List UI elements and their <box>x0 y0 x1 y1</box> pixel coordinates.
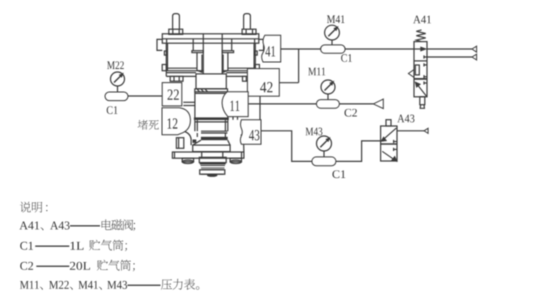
reservoir C1a <box>105 92 128 101</box>
A41 tick3 <box>424 76 427 78</box>
wall notch L <box>164 51 167 55</box>
wall notch R <box>254 51 257 55</box>
reservoir C1c <box>312 157 336 166</box>
legend line4 <box>20 262 33 270</box>
label C1c <box>332 170 345 178</box>
top plate <box>162 34 258 43</box>
central column <box>202 34 204 74</box>
stud right <box>244 14 251 30</box>
ring lines <box>201 130 227 132</box>
port box 12 <box>162 108 190 135</box>
stack dark cap <box>207 174 218 177</box>
seat box <box>193 145 230 152</box>
bottom flange <box>172 152 244 158</box>
wire C2-atm <box>339 103 373 105</box>
A43 tick1 <box>394 141 397 143</box>
port box 41 <box>262 35 281 62</box>
A41 tick1 <box>424 56 427 58</box>
body edge right <box>259 96 261 119</box>
stud left <box>173 14 180 30</box>
legend line2 <box>19 221 39 229</box>
port box 42 <box>247 69 279 97</box>
right web <box>241 135 244 153</box>
gauge M22 <box>111 72 125 86</box>
A41 exhaust tri <box>408 70 414 78</box>
wire C1-A43 <box>336 141 381 162</box>
central box <box>196 74 226 89</box>
num 42 <box>260 82 272 92</box>
A41 diag arrow <box>418 86 426 97</box>
stack2 <box>200 170 225 174</box>
A41 inner rect <box>415 65 419 75</box>
port box 43 <box>240 120 261 145</box>
nut bl <box>182 158 193 162</box>
A41 spring <box>416 30 425 42</box>
label A43 <box>397 115 414 123</box>
plate left tab <box>157 39 162 50</box>
legend line1 <box>20 202 31 213</box>
stack rings <box>201 165 226 167</box>
chamber floor <box>166 70 203 72</box>
label C1a <box>107 106 118 114</box>
wire 43 out <box>261 131 312 162</box>
label M11 <box>308 68 325 76</box>
flange nut left <box>170 76 183 81</box>
nut left <box>169 29 183 34</box>
port box 11 <box>222 92 248 117</box>
wire 41-42 branch <box>298 49 300 83</box>
A41 line2 <box>427 56 472 58</box>
A41 line1 <box>427 48 472 50</box>
legend line3 <box>20 242 33 250</box>
num 22 <box>168 90 179 100</box>
nut right <box>242 29 256 34</box>
port 11 connectors <box>232 117 234 120</box>
A41 flow arrow <box>414 48 423 50</box>
column brackets <box>197 53 202 73</box>
port 22 connectors <box>183 101 195 103</box>
gauge M11 <box>321 80 335 94</box>
A43 stem <box>386 120 391 126</box>
num 43 <box>249 130 259 140</box>
left tab lower <box>176 138 183 149</box>
wall tab lower L <box>162 65 166 71</box>
valve A43 body <box>381 126 397 161</box>
left blob curve <box>184 131 191 145</box>
label M43 <box>306 128 323 136</box>
transition <box>193 140 201 145</box>
legend line5 <box>20 281 39 289</box>
mid body <box>194 92 196 118</box>
valve A41 body <box>414 42 427 97</box>
reservoir C2 <box>316 100 339 109</box>
nut br <box>230 158 241 162</box>
stack cap line <box>201 173 224 175</box>
exhaust tri C2 <box>373 99 383 109</box>
plate right tab <box>259 39 264 50</box>
piston flange <box>195 89 228 92</box>
wall tab lower R <box>255 65 259 71</box>
column steps <box>192 51 203 53</box>
A43 tick2 <box>394 148 397 150</box>
label M41 <box>327 15 345 23</box>
A43 diag2 <box>382 151 393 159</box>
dark nub <box>193 140 197 143</box>
A41 stem <box>420 97 425 105</box>
wire 41 out <box>281 48 321 50</box>
chamber walls <box>165 43 167 70</box>
lower mid <box>194 120 196 131</box>
A43 out line <box>397 130 424 132</box>
wire C1-A41 <box>345 48 414 50</box>
chamber verticals <box>192 39 194 51</box>
reservoir C1b <box>321 45 346 53</box>
label C1b <box>341 54 352 62</box>
label duse <box>138 120 148 130</box>
num 41 <box>265 46 275 56</box>
label C2 <box>344 109 356 117</box>
stack dark band <box>200 162 226 164</box>
port box 22 <box>162 83 182 106</box>
gauge M41 <box>325 25 340 40</box>
label A41 <box>413 16 431 24</box>
A41 tick4 <box>424 82 427 84</box>
num 11 <box>230 101 239 111</box>
band2 dark <box>201 137 228 140</box>
dark band <box>194 117 229 120</box>
cover flange <box>166 72 196 74</box>
num 12 <box>168 118 178 128</box>
stack1 <box>199 157 226 162</box>
flange nut right <box>243 76 256 81</box>
wire C1-22 <box>128 95 162 97</box>
label M22 <box>107 61 124 69</box>
A41 tick2 <box>424 64 427 66</box>
gauge M43 <box>317 136 332 151</box>
wire 11-C2 <box>249 103 317 105</box>
A43 diag1 <box>384 128 396 139</box>
